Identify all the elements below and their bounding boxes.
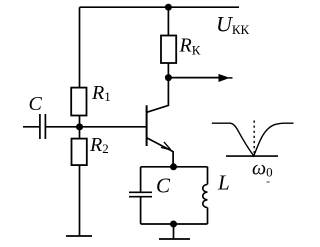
svg-text:C: C [29,93,43,115]
svg-text:L: L [217,171,230,195]
svg-text:C: C [156,174,171,198]
